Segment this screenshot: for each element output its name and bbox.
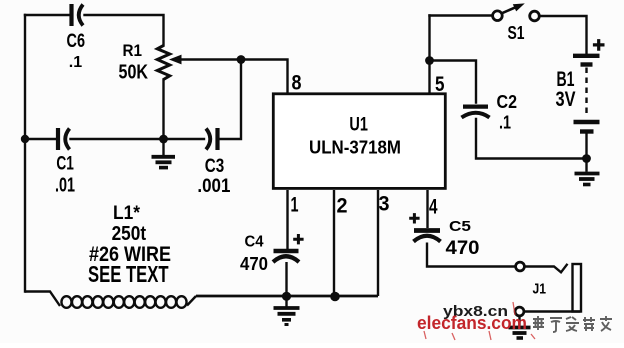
ground under C4: [274, 296, 300, 325]
wire center junction to C3: [164, 138, 205, 140]
plus C5: [409, 213, 419, 223]
svg-text:470: 470: [240, 253, 268, 274]
svg-text:4: 4: [429, 196, 438, 219]
svg-text:U1: U1: [349, 114, 368, 136]
inductor L1 coil: [25, 292, 196, 308]
svg-text:.01: .01: [55, 175, 75, 197]
pin 3 wire: [377, 190, 379, 296]
wire junction to pin 8: [241, 60, 288, 94]
svg-text:S1: S1: [508, 23, 525, 43]
svg-text:470: 470: [446, 238, 480, 259]
pin 1 wire: [286, 190, 288, 249]
svg-text:C4: C4: [245, 234, 264, 251]
svg-text:5: 5: [435, 73, 445, 96]
node dot R1 bottom junction: [159, 135, 168, 144]
wire C2 bottom to battery bottom: [476, 119, 587, 159]
capacitor C3: [206, 128, 218, 150]
capacitor C5: [414, 231, 516, 267]
svg-text:.1: .1: [69, 54, 82, 71]
svg-text:1: 1: [291, 194, 299, 217]
svg-text:L1*: L1*: [113, 203, 141, 224]
svg-text:50K: 50K: [119, 62, 149, 84]
switch S1: [493, 11, 503, 21]
ground under J1: [509, 316, 531, 339]
wire J1 sleeve to plug: [524, 310, 581, 312]
pin 4 wire: [426, 190, 428, 228]
node dot left rail / C1: [21, 135, 29, 143]
wire C3 to right riser: [220, 60, 242, 140]
ground under R1 junction: [152, 139, 176, 168]
IC U1 box: [273, 94, 445, 189]
node dot pin5 junction: [425, 56, 434, 65]
wire switch to battery: [540, 16, 587, 53]
capacitor C6: [72, 4, 84, 26]
wire R1 wiper line: [181, 58, 241, 60]
wire junction to C2: [430, 61, 477, 103]
wire top to switch: [430, 14, 493, 16]
wire R1 bottom to center junction: [162, 80, 164, 140]
wiper arrowhead: [169, 55, 182, 65]
svg-text:elecfans.com: elecfans.com: [417, 312, 527, 333]
svg-text:.001: .001: [197, 176, 230, 197]
svg-text:3V: 3V: [556, 87, 576, 111]
ground under battery: [575, 159, 600, 185]
connector J1 tip terminal: [516, 262, 525, 271]
plus B1: [593, 39, 605, 51]
svg-text:2: 2: [337, 195, 348, 218]
svg-text:C6: C6: [67, 31, 86, 52]
capacitor C1: [58, 128, 70, 150]
pin 2 wire: [333, 190, 335, 296]
connector J1 sleeve terminal: [515, 307, 524, 316]
capacitor C2: [462, 107, 490, 118]
svg-text:3: 3: [379, 193, 390, 216]
plus C4: [293, 234, 303, 244]
resistor R1 (pot): [157, 46, 169, 80]
svg-text:C3: C3: [205, 155, 225, 177]
wire pin 5 riser: [428, 16, 430, 94]
node dot C4 ground junction: [282, 292, 291, 301]
node dot battery/C2 junction: [582, 154, 591, 163]
wire J1 hook: [525, 264, 568, 273]
wire ground bus coil to pin3: [196, 295, 378, 298]
svg-text:.1: .1: [499, 113, 511, 133]
svg-text:R1: R1: [123, 42, 143, 60]
svg-text:C1: C1: [56, 154, 74, 175]
wire top rail to C6: [25, 14, 70, 16]
wire C6 to R1 top: [85, 15, 164, 46]
battery B1: [573, 56, 600, 159]
svg-text:SEE TEXT: SEE TEXT: [88, 261, 169, 287]
svg-text:J1: J1: [533, 281, 547, 298]
red artifact marks: [424, 302, 535, 340]
svg-text:8: 8: [292, 72, 302, 95]
svg-text:C2: C2: [497, 92, 518, 112]
wire C1 to center junction: [71, 138, 164, 140]
wire left vertical rail: [24, 15, 26, 292]
capacitor C4: [273, 251, 299, 296]
watermark CJK brand glyphs: [533, 316, 612, 332]
wire mid rail to C1: [25, 138, 56, 140]
node dot pin2 junction: [330, 292, 340, 302]
svg-text:C5: C5: [449, 218, 471, 235]
svg-text:ULN-3718M: ULN-3718M: [309, 137, 401, 158]
node dot wiper junction: [237, 55, 246, 64]
connector J1 plug body: [573, 264, 582, 312]
